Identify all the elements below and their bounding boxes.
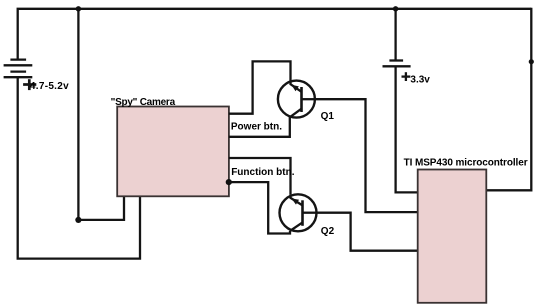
camera box <box>117 107 229 197</box>
svg-text:TI MSP430 microcontroller: TI MSP430 microcontroller <box>404 157 528 168</box>
wire: corner to camera bottom pin 1 <box>78 196 124 220</box>
wire: camera function pin to Q2 emitter <box>229 158 291 194</box>
svg-text:Function btn.: Function btn. <box>231 167 295 178</box>
transistor Q2 <box>280 194 317 231</box>
wire: camera function return to Q2 collector <box>229 182 290 233</box>
svg-text:3.3v: 3.3v <box>410 75 430 86</box>
wire: Q1 base to MSP430 left pin 2 <box>315 99 418 212</box>
wire: camera power return to Q1 collector <box>229 117 290 137</box>
transistor Q1 <box>278 80 315 117</box>
svg-text:Power btn.: Power btn. <box>231 121 282 132</box>
label + of battery B2 <box>402 72 411 81</box>
wire: battery B2 positive lead down into MSP430 left pin 1 <box>396 66 418 192</box>
svg-text:"Spy" Camera: "Spy" Camera <box>111 97 176 108</box>
svg-text:Q2: Q2 <box>321 226 335 237</box>
wire: Q2 base to MSP430 left pin 3 <box>317 213 418 251</box>
MSP430 box <box>418 170 487 303</box>
junction dot at top rail x=78 <box>76 6 81 11</box>
label + of battery B1 <box>23 79 36 90</box>
svg-text:4.7-5.2v: 4.7-5.2v <box>30 81 69 92</box>
wire: battery B1 negative lead up and top supply rail <box>18 9 532 60</box>
wire: battery B1 positive lead down, bottom return, up to camera pin 2 <box>18 77 140 258</box>
junction dot on right rail y=61.7 <box>529 59 534 64</box>
wire: drop from top rail at x=78 <box>77 8 79 220</box>
junction dot at camera function return pin <box>226 179 232 185</box>
wire: battery B2 top lead from rail <box>394 9 396 61</box>
wire: camera power pin to Q1 emitter (over the top) <box>229 61 291 113</box>
wire: right supply rail down into MSP430 right pin <box>486 8 531 191</box>
svg-text:Q1: Q1 <box>321 111 335 122</box>
battery B1 4.7-5.2v plates <box>4 60 33 78</box>
junction dot at corner x=78 y=220 <box>75 217 81 223</box>
junction dot at top rail x=395 <box>393 6 398 11</box>
battery B2 3.3v plates <box>383 61 411 67</box>
